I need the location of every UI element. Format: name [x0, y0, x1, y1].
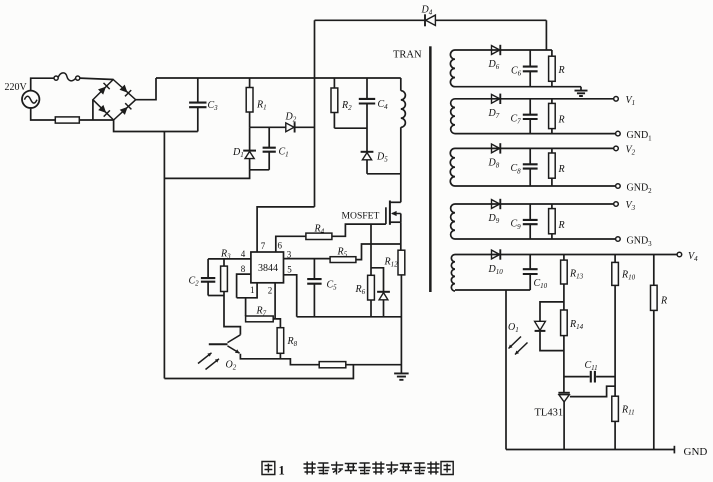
svg-text:C8: C8	[511, 163, 522, 175]
svg-text:C3: C3	[208, 100, 219, 112]
resistor R3	[221, 259, 228, 296]
diode D10	[492, 250, 500, 259]
svg-text:C7: C7	[511, 114, 522, 126]
svg-text:R: R	[558, 220, 565, 231]
svg-text:D7: D7	[488, 108, 500, 120]
svg-text:R: R	[558, 115, 565, 126]
wire pin 8	[237, 274, 251, 298]
svg-text:4: 4	[241, 249, 246, 259]
svg-text:D8: D8	[488, 157, 500, 169]
wire C2 to R3 node	[208, 295, 224, 297]
wire fuse to bridge top	[80, 78, 113, 79]
fuse F	[54, 73, 80, 81]
svg-text:GND3: GND3	[627, 236, 653, 248]
terminal GND1	[616, 131, 621, 136]
svg-text:R: R	[558, 65, 565, 76]
diode D6	[492, 46, 500, 55]
svg-text:R2: R2	[341, 100, 352, 112]
capacitor C2	[201, 259, 215, 296]
wire ground line A	[297, 316, 402, 318]
resistor R12	[398, 250, 405, 373]
resistor R (N4)	[549, 204, 556, 239]
capacitor C7	[523, 99, 538, 134]
caption 图1 驱动电源原理功率开关图	[262, 462, 453, 478]
resistor R (output)	[651, 255, 658, 450]
resistor R5	[330, 244, 401, 263]
resistor R13	[561, 255, 568, 311]
svg-text:C11: C11	[585, 360, 598, 372]
secondary winding N4	[451, 204, 455, 239]
svg-text:R4: R4	[314, 224, 325, 236]
terminal V4	[677, 252, 682, 257]
svg-text:C5: C5	[327, 280, 338, 292]
wire D2 to Vcc rail	[295, 126, 315, 128]
terminal V3	[614, 202, 619, 207]
svg-text:3844: 3844	[258, 263, 278, 274]
TL431 U2	[558, 393, 569, 450]
svg-text:7: 7	[261, 241, 266, 251]
wire bridge - output down	[114, 120, 198, 132]
wire N5 top lead to V4	[455, 254, 677, 256]
svg-text:5: 5	[287, 265, 292, 275]
wire D4 to secondary 1 node	[545, 20, 547, 50]
wire gate node to R6	[370, 224, 372, 275]
O1 light arrows	[509, 337, 528, 355]
wire N3 bottom lead to GND2	[455, 185, 616, 187]
resistor R (N1)	[549, 50, 556, 87]
wire bridge left corner drop	[92, 100, 94, 120]
secondary winding N5	[451, 255, 455, 291]
wire gate to R4	[332, 224, 386, 236]
ground (primary)	[394, 373, 409, 379]
wire R2 bottom to C4	[334, 127, 367, 129]
svg-text:R14: R14	[569, 319, 584, 331]
svg-text:C10: C10	[534, 278, 548, 290]
svg-text:220V: 220V	[5, 82, 28, 93]
svg-text:GND2: GND2	[627, 183, 653, 195]
svg-text:V3: V3	[626, 200, 636, 212]
svg-text:TL431: TL431	[535, 408, 564, 419]
diode D2	[286, 123, 294, 132]
fusible resistor (input)	[55, 117, 79, 123]
wire D1 C1 bottoms	[250, 169, 270, 171]
svg-text:C2: C2	[189, 276, 200, 288]
wire sense resistor to ground node	[346, 364, 402, 366]
MOSFET Q1	[386, 201, 401, 225]
optocoupler LED O1	[535, 302, 564, 351]
svg-text:R7: R7	[256, 306, 267, 318]
capacitor C10	[523, 255, 538, 291]
svg-text:R8: R8	[287, 336, 298, 348]
resistor R8	[275, 319, 284, 359]
terminal V2	[614, 146, 619, 151]
wire N4 bottom lead to GND3	[455, 238, 616, 240]
resistor R7	[246, 298, 276, 322]
svg-text:C4: C4	[378, 99, 389, 111]
svg-text:D10: D10	[488, 264, 504, 276]
svg-text:R1: R1	[256, 100, 267, 112]
diode D5	[361, 152, 374, 174]
terminal GND2	[616, 184, 621, 189]
capacitor C9	[523, 204, 538, 239]
svg-text:8: 8	[241, 264, 246, 274]
wire pin 2	[274, 283, 276, 319]
wire N5 bottom lead	[455, 289, 530, 291]
wire left rail	[163, 132, 165, 379]
wire MOSFET source down	[400, 222, 402, 250]
secondary winding N3	[450, 148, 455, 186]
diode D4	[426, 15, 436, 25]
wire Vcc rail vertical	[314, 20, 316, 207]
wire bottom rail	[164, 365, 353, 379]
wire TL431 ref	[570, 386, 615, 396]
wire N3 top lead to V2	[455, 147, 614, 149]
wire N4 top lead to V3	[455, 203, 614, 205]
terminal GND3	[616, 237, 621, 242]
svg-text:1: 1	[279, 464, 285, 478]
wire R3 node to O2 collector	[224, 296, 240, 335]
svg-text:V4: V4	[688, 251, 698, 263]
transformer primary winding	[401, 78, 406, 202]
svg-text:R12: R12	[384, 257, 399, 269]
secondary winding N1	[450, 50, 455, 87]
capacitor C1	[263, 127, 276, 170]
svg-text:R6: R6	[355, 284, 366, 296]
svg-text:O2: O2	[226, 360, 237, 372]
wire pin 4	[208, 258, 251, 260]
wire R4 to pin6	[276, 236, 306, 252]
wire R1 to D2 node	[250, 126, 287, 128]
wire bridge + output to top rail	[136, 78, 156, 100]
wire D4 top line	[315, 19, 547, 21]
capacitor C6	[523, 50, 538, 87]
svg-text:V2: V2	[626, 144, 636, 156]
resistor R (N3)	[549, 148, 556, 186]
resistor R6	[368, 275, 375, 317]
wire pin 5 to ground line	[284, 275, 297, 317]
wire D1 node to left rail	[164, 170, 249, 179]
resistor R2	[331, 78, 338, 128]
svg-text:6: 6	[278, 241, 283, 251]
svg-text:D2: D2	[285, 112, 297, 124]
svg-text:C1: C1	[279, 147, 289, 159]
svg-text:O1: O1	[508, 322, 519, 334]
svg-text:C6: C6	[511, 66, 522, 78]
capacitor C8	[523, 148, 538, 186]
svg-text:R3: R3	[220, 248, 231, 260]
svg-text:D9: D9	[488, 213, 500, 225]
wire AC top to fuse	[31, 78, 54, 90]
wire top rail	[156, 77, 401, 79]
svg-text:R11: R11	[621, 405, 635, 417]
wire D5 to drain	[367, 173, 401, 175]
svg-text:TRAN: TRAN	[393, 50, 422, 61]
svg-text:R: R	[558, 164, 565, 175]
wire pin 1	[237, 283, 258, 298]
svg-text:R10: R10	[621, 270, 636, 282]
svg-text:R: R	[660, 296, 667, 307]
wire N5 return drop	[505, 290, 507, 450]
O2 light arrows	[198, 353, 219, 370]
svg-text:R5: R5	[337, 247, 348, 259]
secondary winding N2	[451, 99, 455, 134]
svg-text:2: 2	[268, 286, 273, 296]
resistor R4	[306, 233, 332, 239]
wire secondary GND rail	[506, 449, 674, 451]
phototransistor O2	[209, 335, 319, 365]
sense resistor (unlabeled)	[319, 362, 346, 368]
capacitor C4	[359, 78, 375, 152]
capacitor C3	[189, 78, 206, 132]
wire pin7 to Vcc rail	[257, 207, 314, 252]
IC U1 3844	[251, 252, 284, 283]
wire AC bottom	[31, 107, 56, 120]
svg-text:D5: D5	[376, 152, 388, 164]
svg-text:1: 1	[250, 285, 255, 295]
GND terminal tick	[673, 446, 675, 454]
svg-text:GND: GND	[684, 446, 708, 458]
svg-text:MOSFET: MOSFET	[342, 211, 380, 222]
svg-text:V1: V1	[626, 95, 636, 107]
svg-text:C9: C9	[511, 219, 522, 231]
resistor R (N2)	[549, 99, 556, 134]
diode D9	[492, 200, 500, 209]
svg-text:D6: D6	[488, 59, 500, 71]
resistor R14	[561, 310, 568, 393]
capacitor C5	[307, 259, 321, 317]
svg-text:D4: D4	[421, 5, 433, 17]
wire N1 top lead	[455, 49, 552, 51]
wire pin 3	[284, 258, 331, 260]
svg-text:GND1: GND1	[627, 130, 653, 142]
wire N2 bottom lead to GND1	[455, 133, 616, 135]
ground (N1)	[575, 87, 588, 96]
capacitor C11	[564, 371, 615, 383]
bridge rectifier	[93, 80, 136, 121]
terminal V1	[614, 97, 619, 102]
resistor R10	[612, 255, 619, 397]
resistor R11	[612, 396, 619, 449]
diode D8	[492, 144, 500, 153]
svg-text:R13: R13	[569, 269, 584, 281]
diode D7	[492, 94, 500, 103]
wire resistor to bridge bottom	[79, 119, 113, 121]
diode D1	[243, 127, 256, 170]
AC source 220V	[22, 91, 39, 108]
transformer core	[429, 46, 432, 292]
diode D3	[371, 268, 390, 317]
resistor R1	[246, 78, 253, 127]
wire N1 bottom lead	[455, 86, 581, 88]
wire N2 top lead to V1	[455, 98, 614, 100]
svg-text:D1: D1	[232, 147, 244, 159]
